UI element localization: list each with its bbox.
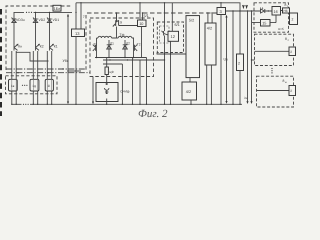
transistor in 6/1 xyxy=(162,3,169,53)
block 12 xyxy=(168,31,179,41)
arrow line feedback xyxy=(225,15,227,104)
svg-text:2: 2 xyxy=(290,89,292,93)
wire rail y54 xyxy=(157,53,186,55)
svg-text:К1: К1 xyxy=(54,44,58,48)
voltage arrow Ubc xyxy=(67,14,69,105)
wire filter down xyxy=(106,102,108,105)
block 4/2 upper xyxy=(205,23,216,65)
junction dots anode rail xyxy=(75,12,213,14)
rail break dots xyxy=(26,12,32,13)
wire block2 down xyxy=(239,71,241,105)
inner dashed box xyxy=(160,26,170,43)
winding box 2-2 xyxy=(289,47,296,56)
wire anode rail xyxy=(34,11,73,13)
svg-text:Т2: Т2 xyxy=(137,43,141,47)
svg-text:14: 14 xyxy=(260,6,264,10)
wire block10 down xyxy=(141,27,143,58)
wire column 2 xyxy=(35,24,37,45)
svg-text:Н6: Н6 xyxy=(284,9,288,13)
svg-text:12: 12 xyxy=(171,34,176,39)
diode 14 xyxy=(261,9,265,13)
svg-text:1Бл: 1Бл xyxy=(54,7,60,11)
sensor box 2 xyxy=(30,79,39,91)
svg-text:4/2: 4/2 xyxy=(186,90,191,94)
transistor Kn xyxy=(14,44,18,50)
svg-text:С=Иф: С=Иф xyxy=(120,90,129,94)
block 5/2 xyxy=(186,16,200,78)
dashed box block 5/1 xyxy=(90,18,154,77)
junction dots top bus xyxy=(80,2,221,3)
svg-text:Убс: Убс xyxy=(63,59,69,63)
wire block3 top xyxy=(220,3,222,8)
sensor box 1 xyxy=(9,79,18,91)
svg-text:10: 10 xyxy=(139,22,143,26)
wire emitter step xyxy=(16,52,49,61)
dashed box sensor row xyxy=(6,76,58,94)
svg-text:15: 15 xyxy=(262,22,266,26)
wire 4/2 upper feeds xyxy=(208,13,212,23)
svg-text:Кн: Кн xyxy=(18,44,22,48)
dashed box module 8-2 xyxy=(255,34,294,65)
wire column 3 xyxy=(49,24,51,45)
wire 5/2 to 4/2 xyxy=(189,78,191,82)
dashed box module 8-1 xyxy=(254,3,289,32)
wire rail right of 3 xyxy=(226,10,273,12)
svg-text:13: 13 xyxy=(75,31,80,36)
wire column 1 xyxy=(13,24,15,45)
wire control rail dashed xyxy=(87,12,217,14)
wire pair column 2 xyxy=(33,51,37,104)
dashed chain line xyxy=(6,72,90,74)
wire inverter bottom rail xyxy=(95,57,147,59)
wire box13 feeds xyxy=(76,3,81,29)
svg-text:1l: 1l xyxy=(48,84,51,88)
transistor 9 xyxy=(113,13,138,27)
svg-text:U=б: U=б xyxy=(278,27,284,31)
svg-text:2: 2 xyxy=(290,50,292,54)
wire block12 feed xyxy=(171,3,173,32)
dashed box module 8-m xyxy=(257,76,294,107)
svg-text:Тф: Тф xyxy=(120,33,125,37)
svg-text:Фиг. 2: Фиг. 2 xyxy=(138,108,168,120)
outer dashed box unit 1 xyxy=(6,6,86,72)
block 3 xyxy=(217,8,226,15)
wire rail y60 xyxy=(103,59,165,61)
svg-text:VD1: VD1 xyxy=(53,18,60,22)
svg-text:1в: 1в xyxy=(11,84,15,88)
svg-text:VDЗн: VDЗн xyxy=(16,18,25,22)
wire stubs through sensor boxes xyxy=(12,79,52,91)
wire block10 top xyxy=(140,3,143,20)
wire module 8-m xyxy=(257,90,290,92)
bottom common bus xyxy=(12,103,242,105)
control marks u xyxy=(243,5,248,8)
wire 4/2 lower down xyxy=(190,100,192,104)
thyristor VD2 xyxy=(33,12,38,24)
wire 6/1 outputs to bus xyxy=(165,53,171,105)
arrow down mid xyxy=(92,77,94,105)
transformer Tf primary xyxy=(97,27,134,44)
winding box 2-1 xyxy=(290,13,298,25)
svg-text:4/2: 4/2 xyxy=(207,27,212,31)
wire pair column 1 xyxy=(12,51,16,104)
svg-text:Uу: Uу xyxy=(224,58,229,62)
svg-text:Д1: Д1 xyxy=(110,42,114,46)
terminal box H6 xyxy=(283,8,290,13)
svg-text:1g: 1g xyxy=(32,84,36,88)
transistor T2 xyxy=(134,43,138,58)
diode D2 xyxy=(123,40,128,58)
wires module 8-1 xyxy=(252,11,283,23)
ellipsis dots xyxy=(22,85,28,86)
svg-text:К2: К2 xyxy=(40,44,44,48)
dashed box block 6/1 xyxy=(157,22,183,53)
terminal box Бл xyxy=(53,5,61,11)
fuse Cf xyxy=(105,58,108,83)
thyristor VD1 xyxy=(47,12,52,24)
svg-text:Д2: Д2 xyxy=(126,42,130,46)
transistor T1 xyxy=(93,41,97,58)
wire module 8-2 xyxy=(255,50,290,52)
block 2 tall xyxy=(237,54,244,71)
svg-text:Т1: Т1 xyxy=(93,43,97,47)
dc rail node xyxy=(14,12,24,17)
page edge marks xyxy=(0,9,2,116)
svg-text:2: 2 xyxy=(238,62,240,66)
transistor K2 xyxy=(36,44,40,50)
module ellipsis xyxy=(271,68,272,74)
svg-text:VD2: VD2 xyxy=(39,18,46,22)
block 15 xyxy=(261,20,271,27)
wire 4/2 upper outputs xyxy=(207,65,212,104)
svg-text:6/1: 6/1 xyxy=(175,23,180,27)
wire vert feeders right xyxy=(246,11,252,104)
wire link xyxy=(68,70,82,72)
top dc bus xyxy=(76,3,240,54)
block 13 xyxy=(72,29,85,37)
svg-text:16: 16 xyxy=(274,10,278,14)
sensor box 3 xyxy=(45,79,53,91)
dashed bus bottom edge of unit 1 xyxy=(6,68,86,70)
wire rail y64 xyxy=(103,64,122,104)
svg-text:7: 7 xyxy=(83,15,85,19)
block 16 xyxy=(272,7,281,16)
svg-text:5/1: 5/1 xyxy=(144,14,149,18)
wire pair column 3 xyxy=(47,51,51,104)
bus junction dots xyxy=(11,104,241,105)
svg-text:цФ: цФ xyxy=(110,70,115,74)
wire block12 down xyxy=(170,41,172,52)
wire vert 233 xyxy=(232,11,234,104)
thyristor VDn xyxy=(12,18,17,25)
block 4/2 lower xyxy=(182,82,197,100)
wire block3 down xyxy=(220,15,222,105)
block 10 xyxy=(138,20,147,27)
svg-text:2: 2 xyxy=(292,18,294,22)
winding box 2-m xyxy=(289,86,296,96)
wire verticals to bus xyxy=(133,58,147,105)
svg-text:9: 9 xyxy=(120,21,122,25)
svg-text:iм: iм xyxy=(245,96,248,100)
svg-text:5/2: 5/2 xyxy=(189,19,194,23)
diode D1 xyxy=(107,40,112,58)
transistor K1 xyxy=(50,44,54,50)
wire box13 down xyxy=(75,37,77,105)
filter block xyxy=(96,83,118,102)
